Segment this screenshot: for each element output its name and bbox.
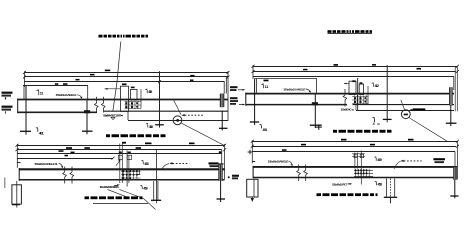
dim text blobs BR xyxy=(341,139,347,141)
title text TR xyxy=(328,30,373,33)
label 411 TR xyxy=(263,85,265,88)
dimension line 3 TL xyxy=(25,81,225,83)
right vertical dims TR xyxy=(454,66,456,111)
beam left end cap TR xyxy=(245,92,247,105)
title underline TR xyxy=(328,32,373,34)
beam top flange BR xyxy=(253,166,457,168)
sub line up tick TL xyxy=(127,111,129,120)
break mark 2 BL xyxy=(70,167,74,184)
angle cleat curve BR xyxy=(288,161,292,166)
right column stem TR xyxy=(450,106,452,124)
caption underline BL xyxy=(93,203,148,205)
left corner tick BL xyxy=(17,161,20,163)
svg-text:150x90x10 ANGLE CL: 150x90x10 ANGLE CL xyxy=(34,162,58,166)
svg-text:150x90x10 PLT: 150x90x10 PLT xyxy=(332,182,347,186)
mid column grid line TL xyxy=(159,71,161,125)
pier box BR xyxy=(247,179,258,197)
lower sub line TR xyxy=(356,110,454,112)
mid column outer lines BR xyxy=(386,179,388,197)
bolt dots BR xyxy=(355,170,368,175)
small triangle marker TL xyxy=(111,117,115,119)
caption TL xyxy=(106,134,166,137)
pier stem BR xyxy=(251,197,253,202)
mid column grid line BL xyxy=(155,150,157,203)
label 415 TR xyxy=(373,84,375,87)
dimension line 3 TR xyxy=(253,76,454,78)
beam left end cap BR xyxy=(252,166,254,178)
label 415 TL xyxy=(146,90,148,93)
bolt grid TL xyxy=(125,89,142,109)
right end labels TL xyxy=(230,86,238,88)
right column base tick TL xyxy=(219,127,228,129)
leader diagonal into circle TR xyxy=(401,100,405,111)
detail right edge TR xyxy=(367,86,369,104)
sub-frame top line TL xyxy=(23,85,88,87)
left corner tick BR xyxy=(252,161,255,163)
dim text blobs TL line3 xyxy=(76,79,80,81)
dimension line 2 TR xyxy=(253,71,456,73)
dimension line 2 TL xyxy=(25,76,229,78)
right column bar TR xyxy=(449,87,453,105)
break mark 2 TL xyxy=(102,97,106,113)
mid column base tick TR xyxy=(383,118,392,120)
sub-frame left edge TL xyxy=(23,86,25,100)
bolt plate detail BL xyxy=(116,144,140,187)
top of steel text BL xyxy=(209,162,219,164)
bearing plate blob column2 TL xyxy=(84,110,90,113)
dim text blobs TL line1 xyxy=(105,70,111,72)
beam top flange TL xyxy=(18,99,229,101)
column 2 TR xyxy=(314,95,316,125)
bolt detail arrows BL xyxy=(116,161,120,166)
svg-text:459: 459 xyxy=(377,158,382,162)
sub-frame top line TR xyxy=(255,78,318,80)
label 401 TR xyxy=(260,125,262,128)
plus cross mark TR xyxy=(316,126,323,128)
left edge label BR xyxy=(232,175,239,177)
vertical dimension line left end TL xyxy=(24,71,26,87)
leader diagonal to arrow TL xyxy=(174,100,182,115)
right vertical dim BL xyxy=(224,144,226,179)
sub-frame right edge TR xyxy=(316,79,318,95)
mid column dotted center BR xyxy=(389,179,391,198)
angle cleat leader curve TR xyxy=(306,89,311,92)
bolt dots TR xyxy=(354,97,366,103)
caption TR xyxy=(333,130,392,133)
vertical dimension line right end TL xyxy=(227,71,229,121)
dashed arrow BR xyxy=(401,160,404,162)
leader from title to plate detail xyxy=(113,42,121,112)
label 401 TL xyxy=(37,129,39,132)
right vertical dim BR xyxy=(456,141,458,180)
mid column base tick BR xyxy=(384,196,397,198)
detail circle dot TR xyxy=(404,114,408,116)
right column stem BR xyxy=(454,180,456,196)
bolt grid BR xyxy=(354,169,373,179)
svg-text:401: 401 xyxy=(39,131,44,135)
right column cap tick BL xyxy=(217,163,223,165)
dimension line 4 BL xyxy=(17,158,113,160)
svg-text:150x90x10 ANGLE: 150x90x10 ANGLE xyxy=(283,87,305,91)
detail circle TR xyxy=(401,110,410,119)
dimension line 1 BR xyxy=(252,141,457,143)
svg-text:453: 453 xyxy=(378,183,383,187)
beam top flange BL xyxy=(19,168,225,170)
dashed arrow BL xyxy=(169,162,172,164)
leader 2 extension BL xyxy=(144,199,156,210)
right column base tick BR xyxy=(450,195,458,197)
right column bar TL xyxy=(220,94,225,108)
break mark 2 BR xyxy=(304,165,308,182)
bolt plate detail TR : gusset plates xyxy=(349,81,364,94)
dim text blobs TR xyxy=(334,64,339,66)
text beside circle TR xyxy=(410,109,413,111)
beam top flange TR xyxy=(246,93,454,95)
bolt grid BL xyxy=(121,170,141,180)
lower sub line right TL xyxy=(128,120,228,122)
caption BR xyxy=(317,193,378,196)
dim text blobs BL xyxy=(122,142,126,144)
detail circle TL xyxy=(173,116,182,125)
break mark 1 BR xyxy=(297,165,301,182)
angle cleat leader curve TL xyxy=(77,95,82,99)
caption BL xyxy=(85,196,143,199)
left column base tick TL xyxy=(20,130,31,132)
sub-frame left edge TR xyxy=(255,79,257,94)
detail grid vertical TR xyxy=(357,78,359,110)
detail circle dot TL xyxy=(176,119,179,122)
break mark TR xyxy=(343,89,346,107)
sub-frame right edge TL xyxy=(87,86,89,100)
bolt dots TL xyxy=(125,102,138,108)
dim tick marks BR xyxy=(251,140,254,143)
svg-text:150x90x10 ANGLE: 150x90x10 ANGLE xyxy=(56,93,77,97)
beam bottom flange left part TL xyxy=(18,111,98,113)
label 459 BR xyxy=(375,158,377,161)
svg-text:415: 415 xyxy=(148,90,152,94)
svg-text:11: 11 xyxy=(40,92,44,96)
beam bottom flange right TR xyxy=(353,104,455,106)
svg-text:453: 453 xyxy=(144,162,149,166)
right column bar BR xyxy=(453,167,457,180)
bolt plate detail TL : gusset plates xyxy=(121,86,138,111)
left page edge mark xyxy=(4,178,6,189)
mid column grid line TR xyxy=(386,65,388,119)
bolt detail dimension ticks TL xyxy=(105,88,121,90)
right column base tick TR xyxy=(446,122,457,124)
label 411 flag TL xyxy=(38,91,40,95)
svg-text:150x90x10 ANGLE: 150x90x10 ANGLE xyxy=(268,160,289,164)
leader 2 to caption BL xyxy=(120,190,144,199)
left column TL xyxy=(25,86,27,131)
dimension line 3 BL xyxy=(17,153,222,155)
mid column outer lines BL xyxy=(153,181,155,200)
pier base tick BL xyxy=(12,204,20,206)
left vertical dim BR xyxy=(251,140,253,163)
mid column base tick TL xyxy=(155,124,164,126)
beam bottom flange BR xyxy=(253,177,457,179)
left end labels TL upper xyxy=(2,92,13,94)
mid column base tick BL xyxy=(151,199,161,201)
leader 1 to caption BL xyxy=(108,190,131,199)
dim tick marks TR xyxy=(252,65,255,68)
label 452 TL xyxy=(147,124,149,127)
left end labels TL lower xyxy=(2,106,13,108)
right column stem BL xyxy=(220,181,222,199)
left column base tick TR xyxy=(250,121,259,123)
beam bottom flange BL xyxy=(19,179,225,181)
title text TL xyxy=(99,35,149,38)
label 453 lower BL xyxy=(141,186,143,189)
dimension line 1 BL xyxy=(17,145,225,147)
svg-text:412: 412 xyxy=(375,84,380,88)
dimension line 1 TL xyxy=(25,72,229,74)
pier box BL xyxy=(12,185,22,204)
bearing plate blob column2 TR xyxy=(312,102,318,105)
svg-text:452: 452 xyxy=(149,125,154,129)
dimension line 1 TR xyxy=(253,66,457,68)
dim tick marks BL xyxy=(16,144,19,147)
leader curve to flange BR xyxy=(394,161,401,169)
leader curve to flange BL xyxy=(162,164,170,170)
top of steel text BR xyxy=(433,158,445,160)
right column bar BL xyxy=(218,164,222,181)
pier base arrow BR xyxy=(251,198,255,201)
break mark 1 TL xyxy=(95,97,99,113)
left vertical dim BL xyxy=(16,144,18,168)
bolt dots BL xyxy=(123,170,138,179)
dashed arrow TL xyxy=(181,114,184,116)
beam bottom flange right part TL xyxy=(104,110,229,112)
column 2 base tick TR xyxy=(310,124,322,126)
svg-text:453: 453 xyxy=(143,187,148,191)
dim text blobs TL line2 xyxy=(90,74,95,76)
break mark 1 BL xyxy=(63,167,67,184)
svg-text:401: 401 xyxy=(262,128,267,132)
label 453 upper BL xyxy=(142,161,144,164)
svg-text:11: 11 xyxy=(265,85,269,89)
left vertical dim TR xyxy=(252,65,254,79)
dim tick marks TL xyxy=(23,71,26,74)
plus mark left BR xyxy=(248,151,253,153)
detail dim arrow blobs BL xyxy=(119,152,122,154)
small dot right BL xyxy=(228,176,230,178)
beam left end cap TL xyxy=(17,98,19,113)
beam bottom flange left TR xyxy=(246,104,347,106)
beam left end cap BL xyxy=(18,168,20,181)
column 2 TL xyxy=(86,101,88,132)
bolt plate detail BR xyxy=(352,151,365,185)
dimension line 3 BR xyxy=(252,151,455,153)
label under mid column TR xyxy=(374,119,376,123)
pier center line BL xyxy=(16,181,18,208)
bolt grid TR xyxy=(352,95,369,104)
svg-text:150x90 ANGLE CLEAT: 150x90 ANGLE CLEAT xyxy=(103,113,121,117)
dimension line 2 BR xyxy=(252,146,456,148)
column 2 base tick TL xyxy=(82,130,93,132)
circle leader to BR view TR xyxy=(409,118,448,142)
angle cleat curve BL xyxy=(59,163,63,167)
right column base tick BL xyxy=(217,198,226,200)
circle leader to caption below TL xyxy=(182,123,225,145)
svg-text:150x90 AC: 150x90 AC xyxy=(341,108,353,112)
pier inner line BR xyxy=(253,179,255,197)
dimension line 2 BL xyxy=(17,149,222,151)
right column stem TL xyxy=(221,111,223,129)
bolt detail dimension ticks TR xyxy=(344,83,349,85)
left column TR xyxy=(254,79,256,123)
label 453 BR xyxy=(376,182,378,185)
